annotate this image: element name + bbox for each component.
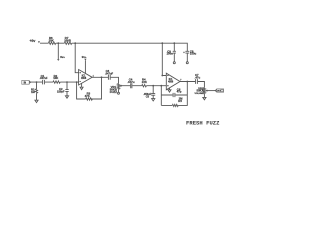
svg-text:+9v: +9v xyxy=(29,39,35,43)
svg-text:220pF: 220pF xyxy=(57,90,65,94)
svg-text:100n: 100n xyxy=(167,52,174,56)
svg-text:50KA: 50KA xyxy=(196,89,203,93)
svg-text:.47u: .47u xyxy=(195,76,201,80)
svg-text:.047u: .047u xyxy=(127,80,134,84)
svg-text:10K: 10K xyxy=(49,39,54,43)
svg-text:FUZZ: FUZZ xyxy=(110,90,117,94)
svg-text:47p: 47p xyxy=(177,90,182,94)
svg-text:+: + xyxy=(183,51,185,54)
svg-text:IN: IN xyxy=(24,81,27,84)
svg-text:47K: 47K xyxy=(85,94,90,98)
svg-text:100u: 100u xyxy=(190,52,197,56)
svg-text:.047uF: .047uF xyxy=(40,77,48,80)
svg-text:R5: R5 xyxy=(178,99,182,103)
svg-text:1M: 1M xyxy=(31,90,36,94)
svg-text:4558: 4558 xyxy=(168,81,174,84)
svg-text:.047uF: .047uF xyxy=(105,71,114,75)
svg-text:10K: 10K xyxy=(53,76,58,80)
svg-text:100R: 100R xyxy=(64,39,71,43)
svg-text:VOLUME: VOLUME xyxy=(194,93,204,95)
svg-text:9v+: 9v+ xyxy=(82,55,87,59)
svg-text:FRESH FUZZ: FRESH FUZZ xyxy=(186,119,220,126)
svg-text:4558: 4558 xyxy=(81,77,87,80)
svg-text:22K: 22K xyxy=(142,80,147,84)
svg-text:9v+: 9v+ xyxy=(60,55,65,59)
